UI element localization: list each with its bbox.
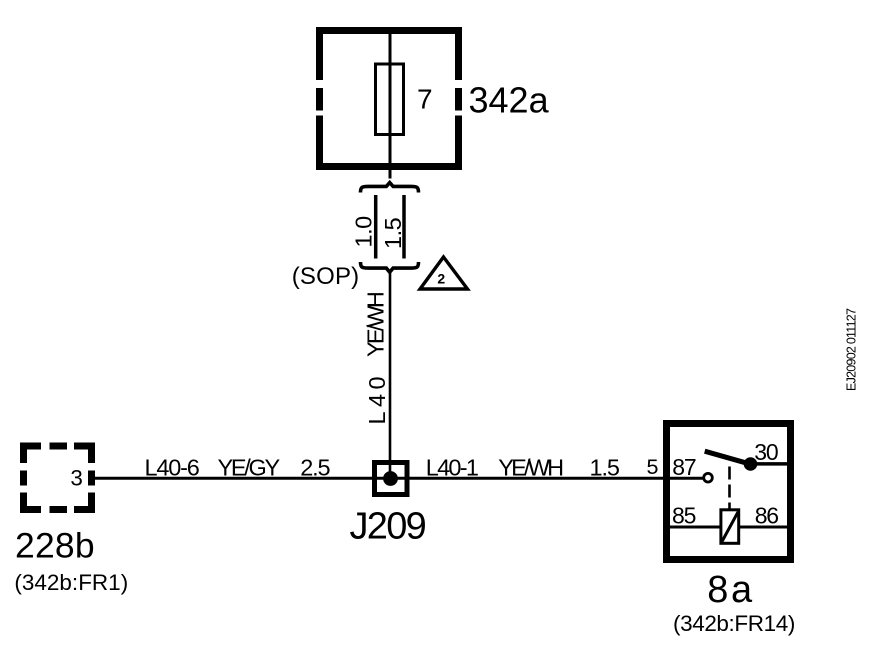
svg-text:L40: L40 bbox=[364, 372, 390, 424]
svg-text:EJ20902 011127: EJ20902 011127 bbox=[845, 308, 859, 391]
svg-text:1.5: 1.5 bbox=[590, 454, 620, 480]
svg-text:30: 30 bbox=[754, 439, 778, 465]
relay coil bbox=[721, 510, 739, 544]
wire size bar right bbox=[402, 195, 406, 259]
wire to pin 85 bbox=[670, 526, 720, 529]
svg-text:2.5: 2.5 bbox=[300, 454, 330, 480]
fuse 7 bbox=[376, 64, 404, 135]
svg-text:342a: 342a bbox=[469, 80, 550, 121]
svg-text:(SOP): (SOP) bbox=[292, 263, 360, 290]
svg-text:YE/WH: YE/WH bbox=[363, 292, 389, 357]
terminal 87 contact (open circle) bbox=[704, 473, 713, 482]
wire (horizontal main) bbox=[94, 477, 703, 480]
svg-text:228b: 228b bbox=[15, 526, 95, 566]
terminal 30 contact (filled dot) bbox=[744, 457, 758, 471]
svg-text:85: 85 bbox=[672, 502, 696, 528]
brace bottom bbox=[361, 262, 419, 272]
svg-text:3: 3 bbox=[70, 466, 83, 491]
svg-text:87: 87 bbox=[672, 454, 696, 480]
svg-text:J209: J209 bbox=[350, 506, 426, 548]
svg-text:(342b:FR1): (342b:FR1) bbox=[14, 570, 128, 595]
svg-text:2: 2 bbox=[437, 271, 445, 287]
svg-text:5: 5 bbox=[647, 455, 659, 479]
wire (vertical through fuse box) bbox=[389, 34, 392, 179]
relay actuation dashed link bbox=[728, 467, 731, 509]
svg-text:(342b:FR14): (342b:FR14) bbox=[673, 611, 795, 636]
svg-text:8a: 8a bbox=[707, 569, 754, 611]
svg-text:YE/WH: YE/WH bbox=[498, 454, 563, 480]
svg-text:7: 7 bbox=[417, 84, 433, 115]
connector box 342a bbox=[316, 27, 462, 170]
wire to pin 86 bbox=[740, 526, 787, 529]
wire size bar left bbox=[374, 195, 378, 259]
svg-text:YE/GY: YE/GY bbox=[218, 454, 281, 480]
svg-text:86: 86 bbox=[755, 502, 779, 528]
wire (vertical to junction) bbox=[389, 273, 392, 478]
svg-text:1.0: 1.0 bbox=[351, 216, 377, 248]
svg-text:1.5: 1.5 bbox=[380, 217, 406, 249]
junction J209 bbox=[375, 463, 408, 495]
relay switch arm bbox=[705, 451, 751, 464]
brace top bbox=[361, 183, 419, 193]
svg-text:L40-1: L40-1 bbox=[426, 454, 478, 480]
connector 228b (dashed box) bbox=[20, 443, 95, 514]
wire to pin 30 bbox=[751, 462, 788, 466]
relay box 8a bbox=[663, 420, 794, 563]
note triangle 2 bbox=[420, 257, 468, 289]
svg-text:L40-6: L40-6 bbox=[145, 454, 200, 480]
